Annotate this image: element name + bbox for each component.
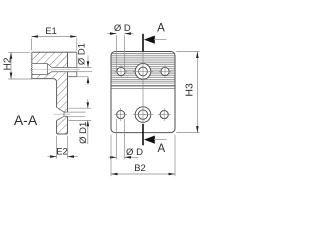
bottom hole centerline (54, 113, 71, 115)
dim OD bottom (109, 119, 144, 159)
svg-text:Ø D1: Ø D1 (77, 43, 88, 65)
dim H2 (2, 52, 32, 79)
svg-text:Ø D1: Ø D1 (78, 122, 89, 144)
svg-text:H3: H3 (183, 83, 195, 97)
bottom hole channel (white cut) (57, 107, 68, 120)
top hole centerline (30, 69, 80, 71)
hole top-left (115, 65, 128, 78)
serrated face (31, 52, 32, 79)
svg-text:A: A (157, 143, 165, 155)
svg-text:Ø D: Ø D (114, 23, 131, 34)
hole top-center (133, 64, 153, 80)
section line A-A (142, 34, 144, 146)
left view outline (32, 52, 77, 134)
dim B2 (111, 135, 175, 176)
top hole strokes (32, 64, 77, 75)
svg-text:B2: B2 (134, 163, 146, 174)
dim OD1 bottom (68, 99, 92, 144)
dim E1 (31, 26, 76, 50)
section arrow bottom (144, 136, 167, 156)
hole bottom-left (114, 108, 127, 121)
section arrow top (144, 23, 167, 44)
hole top-right (159, 65, 172, 78)
hole bottom-right (158, 108, 171, 121)
svg-text:A: A (157, 23, 165, 35)
svg-text:H2: H2 (2, 57, 13, 70)
hatched L profile (32, 52, 67, 134)
svg-text:Ø D: Ø D (126, 147, 143, 158)
svg-text:E1: E1 (45, 26, 57, 37)
svg-text:E2: E2 (56, 146, 68, 157)
plate outline (111, 52, 175, 133)
rib band (111, 54, 175, 89)
dim H3 (176, 52, 199, 133)
top hole channel (white cut) (32, 64, 77, 75)
dim OD top (108, 23, 134, 71)
dim OD1 top (77, 43, 92, 85)
dim E2 (48, 136, 78, 159)
rear strip (unhatched) (68, 52, 77, 76)
svg-text:A-A: A-A (14, 112, 38, 128)
hole bottom-center (133, 107, 153, 123)
